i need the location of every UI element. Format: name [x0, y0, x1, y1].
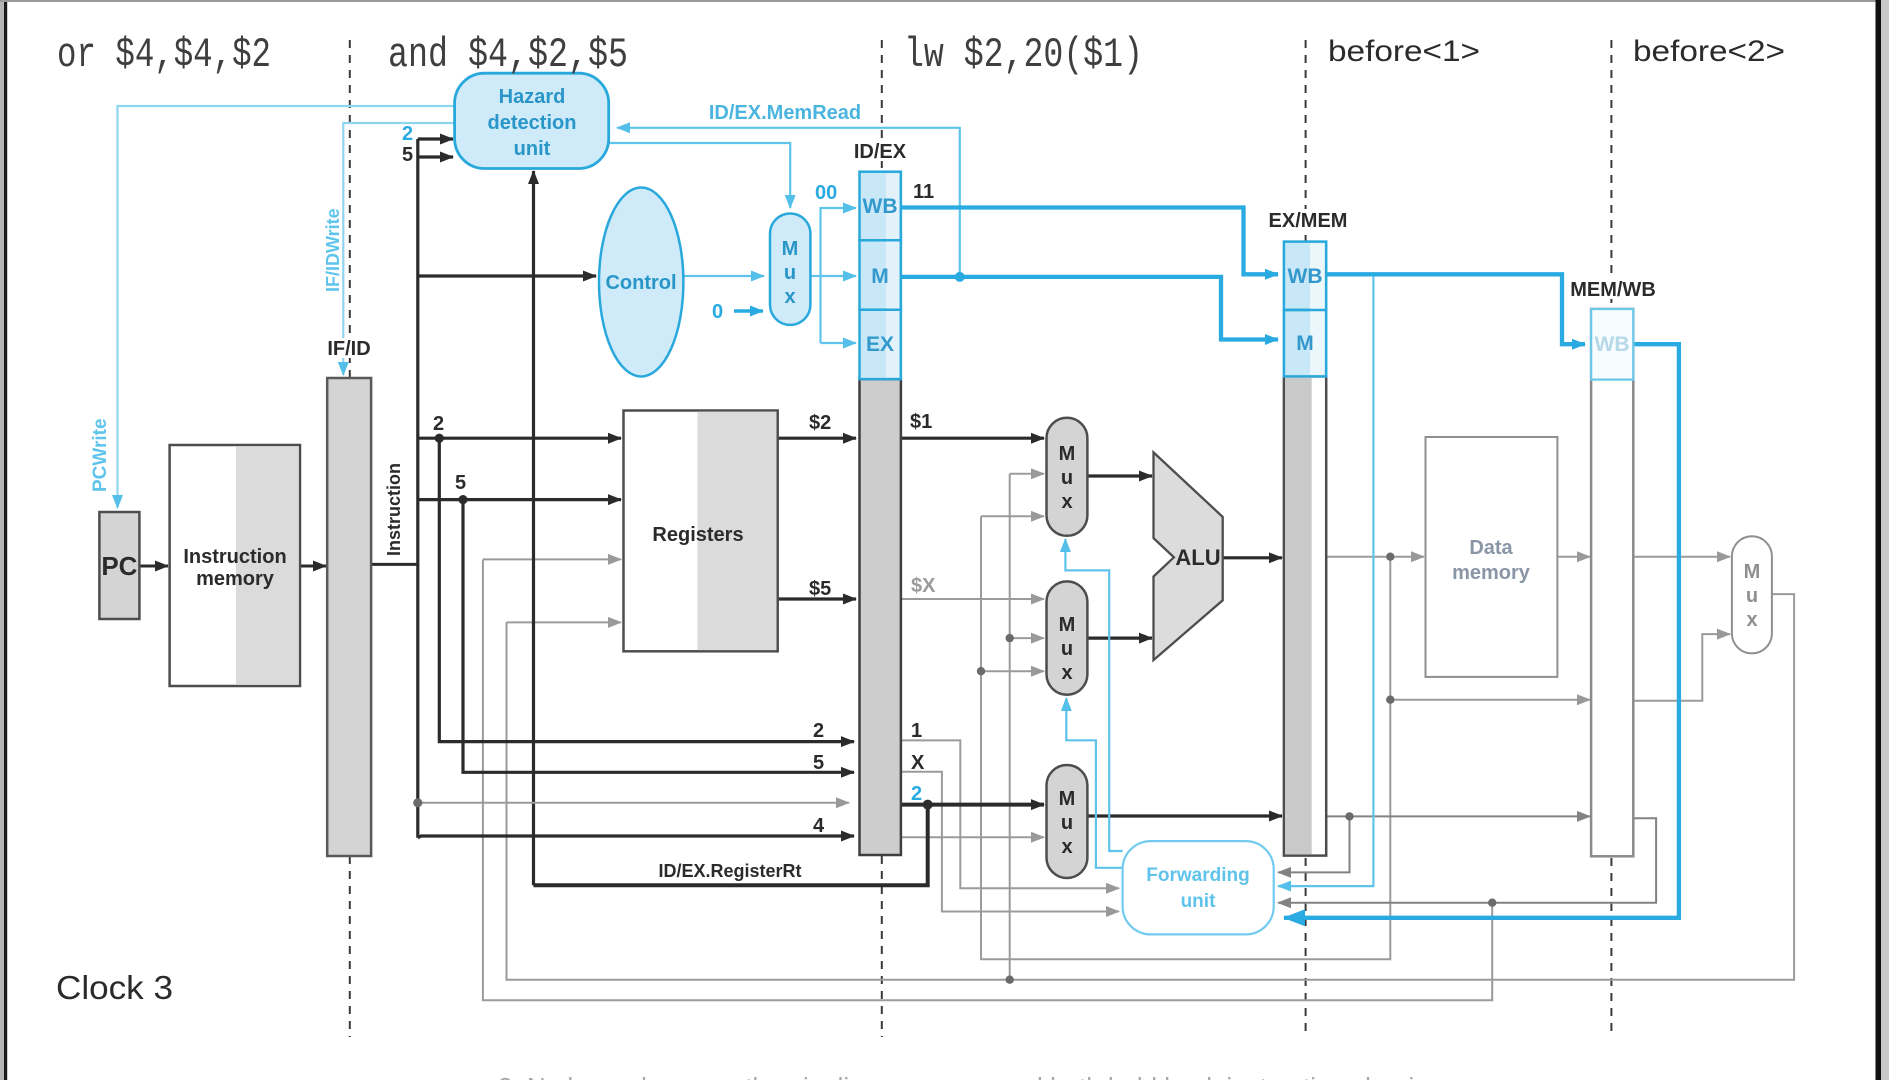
svg-text:ID/EX: ID/EX: [854, 141, 907, 163]
svg-text:PC: PC: [101, 551, 137, 581]
svg-text:ID/EX.RegisterRt: ID/EX.RegisterRt: [658, 861, 801, 881]
svg-text:2: 2: [402, 123, 413, 145]
svg-text:$5: $5: [809, 578, 831, 600]
svg-text:detection: detection: [488, 112, 577, 134]
svg-text:memory: memory: [196, 568, 275, 590]
svg-text:x: x: [784, 286, 795, 308]
svg-text:00: 00: [815, 182, 837, 204]
svg-text:EX: EX: [866, 333, 894, 356]
svg-text:u: u: [784, 262, 796, 284]
svg-text:2: 2: [911, 783, 922, 805]
svg-text:M: M: [1059, 443, 1076, 465]
svg-text:lw $2,20($1): lw $2,20($1): [904, 31, 1143, 79]
svg-text:unit: unit: [514, 138, 551, 160]
svg-text:WB: WB: [863, 195, 898, 218]
svg-text:x: x: [1061, 662, 1072, 684]
svg-text:X: X: [911, 752, 925, 774]
svg-text:ID/EX.MemRead: ID/EX.MemRead: [709, 102, 861, 124]
svg-text:2: 2: [433, 413, 444, 435]
svg-text:memory: memory: [1452, 562, 1531, 584]
svg-text:1: 1: [911, 720, 922, 742]
svg-text:EX/MEM: EX/MEM: [1269, 210, 1348, 232]
svg-text:ALU: ALU: [1175, 545, 1220, 570]
svg-text:2: 2: [813, 720, 824, 742]
svg-text:WB: WB: [1288, 265, 1323, 288]
svg-text:and $4,$2,$5: and $4,$2,$5: [388, 31, 628, 79]
svg-text:Clock 3: Clock 3: [56, 969, 173, 1006]
svg-text:before<1>: before<1>: [1328, 35, 1480, 68]
svg-text:IF/ID: IF/ID: [327, 338, 370, 360]
svg-text:before<2>: before<2>: [1633, 35, 1785, 68]
svg-text:x: x: [1061, 836, 1072, 858]
svg-text:M: M: [1744, 561, 1761, 583]
svg-text:MEM/WB: MEM/WB: [1570, 279, 1656, 301]
svg-text:5: 5: [402, 144, 413, 166]
svg-text:M: M: [782, 238, 799, 260]
svg-text:Control: Control: [605, 272, 676, 294]
svg-text:Instruction: Instruction: [183, 546, 286, 568]
svg-text:4: 4: [813, 815, 825, 837]
svg-text:$1: $1: [910, 411, 932, 433]
svg-text:5: 5: [455, 472, 466, 494]
svg-text:M: M: [1059, 788, 1076, 810]
svg-text:or $4,$4,$2: or $4,$4,$2: [57, 31, 271, 79]
svg-text:0: 0: [712, 301, 723, 323]
svg-text:u: u: [1061, 467, 1073, 489]
svg-text:Hazard: Hazard: [499, 86, 566, 108]
svg-text:Instruction: Instruction: [384, 463, 404, 556]
svg-text:PCWrite: PCWrite: [90, 418, 111, 492]
svg-text:M: M: [871, 265, 889, 288]
svg-text:u: u: [1746, 585, 1758, 607]
svg-text:5: 5: [813, 752, 824, 774]
svg-text:$X: $X: [911, 575, 936, 597]
svg-text:Data: Data: [1469, 537, 1513, 559]
svg-text:u: u: [1061, 812, 1073, 834]
svg-text:unit: unit: [1181, 891, 1216, 912]
svg-text:11: 11: [913, 181, 934, 203]
svg-text:M: M: [1296, 332, 1314, 355]
svg-text:$2: $2: [809, 412, 831, 434]
svg-text:Registers: Registers: [652, 524, 743, 546]
svg-text:WB: WB: [1595, 333, 1630, 356]
svg-text:Forwarding: Forwarding: [1146, 865, 1249, 886]
svg-text:x: x: [1746, 609, 1757, 631]
svg-text:x: x: [1061, 491, 1072, 513]
svg-text:u: u: [1061, 638, 1073, 660]
svg-text:IF/IDWrite: IF/IDWrite: [323, 208, 343, 292]
svg-text:M: M: [1059, 614, 1076, 636]
